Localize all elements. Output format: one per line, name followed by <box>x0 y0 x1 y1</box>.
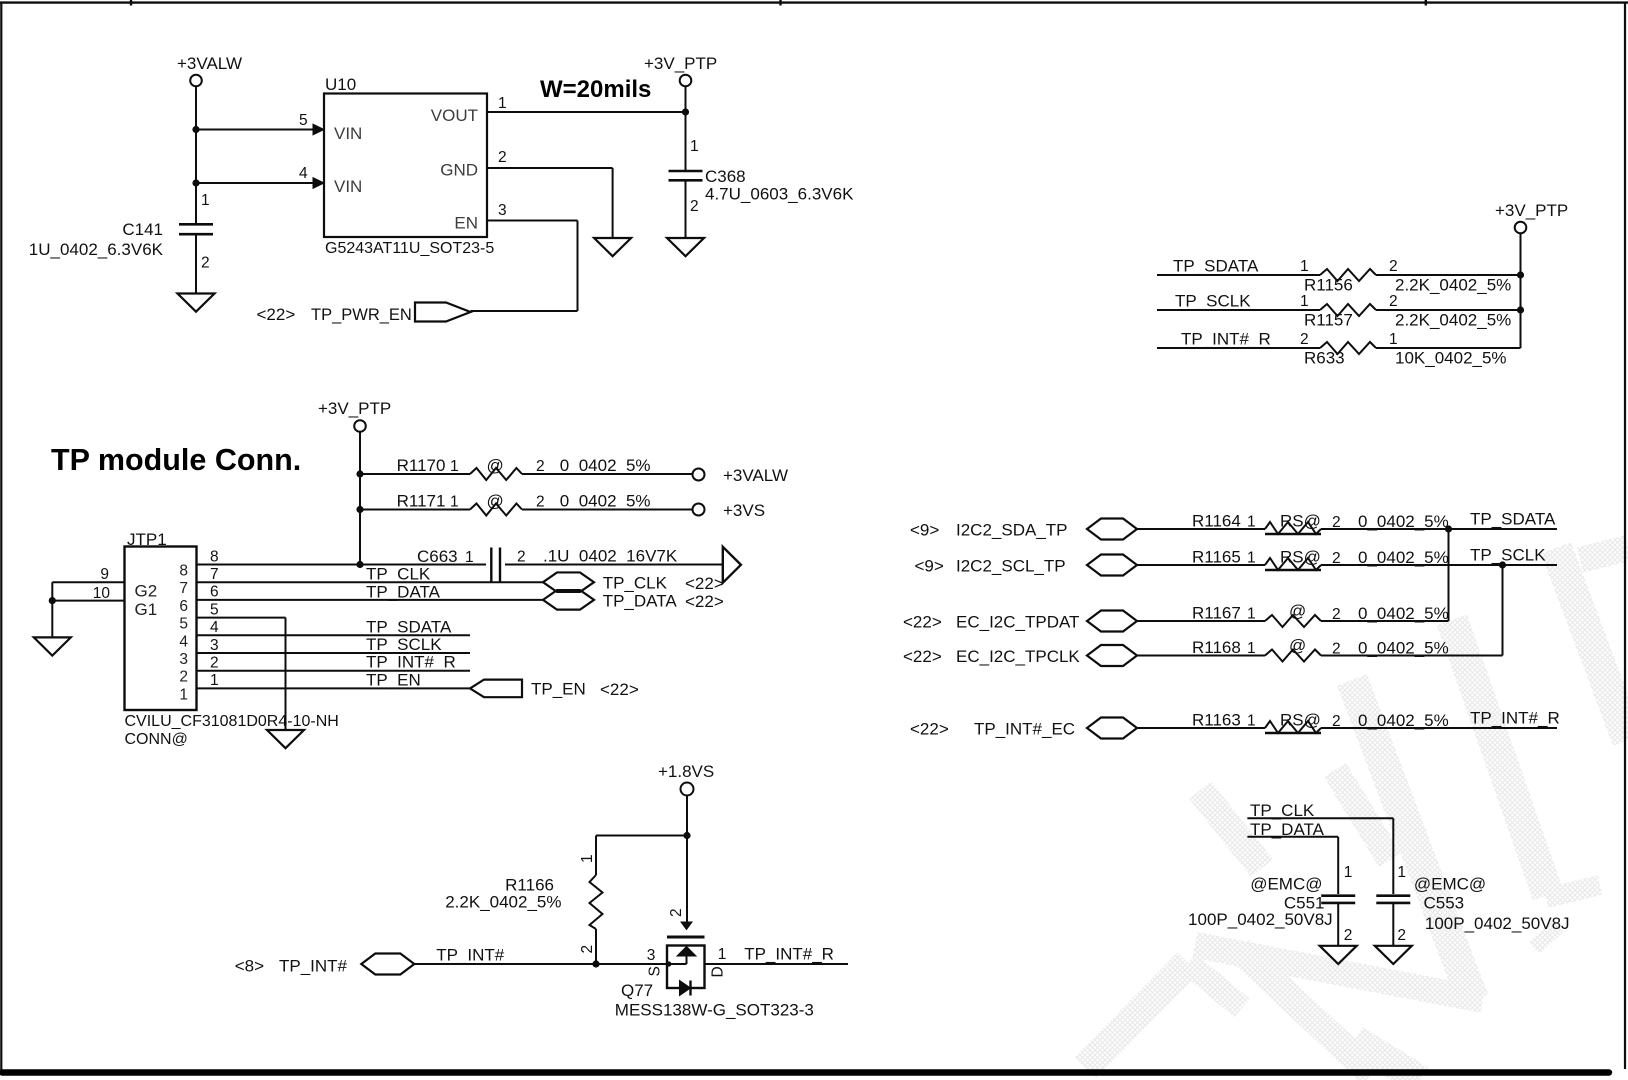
svg-text:R1157: R1157 <box>1304 311 1353 330</box>
svg-text:+3VALW: +3VALW <box>723 466 788 485</box>
svg-text:G1: G1 <box>135 600 158 619</box>
svg-text:+3V_PTP: +3V_PTP <box>644 54 717 73</box>
svg-text:TP_INT#_R: TP_INT#_R <box>744 945 834 964</box>
svg-text:.1U_0402_16V7K: .1U_0402_16V7K <box>543 547 678 566</box>
svg-text:4: 4 <box>299 165 308 182</box>
svg-text:W=20mils: W=20mils <box>540 76 651 103</box>
svg-text:@: @ <box>487 456 504 475</box>
svg-text:R1170: R1170 <box>397 456 446 475</box>
svg-text:TP_EN: TP_EN <box>531 680 586 699</box>
svg-text:EN: EN <box>454 214 478 233</box>
svg-text:<22>: <22> <box>685 592 724 611</box>
svg-text:+3VS: +3VS <box>723 501 765 520</box>
svg-text:1: 1 <box>1300 258 1309 275</box>
svg-text:2: 2 <box>1389 258 1398 275</box>
svg-text:R1156: R1156 <box>1304 276 1353 295</box>
svg-text:7: 7 <box>210 566 219 583</box>
svg-text:10K_0402_5%: 10K_0402_5% <box>1395 349 1507 368</box>
svg-text:2: 2 <box>1332 550 1341 567</box>
svg-text:@EMC@: @EMC@ <box>1414 875 1486 894</box>
svg-text:3: 3 <box>647 947 656 964</box>
svg-text:2: 2 <box>1344 927 1353 944</box>
svg-text:TP_PWR_EN: TP_PWR_EN <box>311 306 412 324</box>
svg-text:0_0402_5%: 0_0402_5% <box>1358 639 1449 658</box>
svg-text:RS@: RS@ <box>1280 512 1321 531</box>
svg-text:<22>: <22> <box>910 719 949 738</box>
svg-text:C141: C141 <box>122 220 163 239</box>
svg-text:2: 2 <box>1300 331 1309 348</box>
svg-text:Q77: Q77 <box>621 981 653 1000</box>
svg-text:R633: R633 <box>1304 349 1345 368</box>
svg-text:5: 5 <box>299 112 308 129</box>
svg-text:100P_0402_50V8J: 100P_0402_50V8J <box>1188 910 1333 929</box>
svg-text:2.2K_0402_5%: 2.2K_0402_5% <box>445 893 561 912</box>
svg-text:2: 2 <box>517 549 526 566</box>
svg-text:2: 2 <box>690 198 699 215</box>
svg-text:2: 2 <box>179 669 188 686</box>
svg-text:1: 1 <box>179 686 188 703</box>
svg-text:+3VALW: +3VALW <box>177 54 242 73</box>
svg-text:2: 2 <box>536 494 545 511</box>
svg-text:2: 2 <box>1332 713 1341 730</box>
svg-text:TP_DATA: TP_DATA <box>603 591 678 610</box>
svg-text:2: 2 <box>1332 514 1341 531</box>
svg-text:1: 1 <box>498 95 507 112</box>
svg-text:2: 2 <box>536 458 545 475</box>
svg-text:TP_CLK: TP_CLK <box>366 565 431 584</box>
svg-text:TP_INT#_EC: TP_INT#_EC <box>974 719 1075 738</box>
svg-text:1: 1 <box>1344 864 1353 881</box>
svg-text:TP_EN: TP_EN <box>366 670 421 689</box>
svg-text:I2C2_SCL_TP: I2C2_SCL_TP <box>956 556 1066 575</box>
svg-text:@: @ <box>1289 636 1306 655</box>
svg-text:TP_SDATA: TP_SDATA <box>366 617 452 636</box>
svg-text:TP_SDATA: TP_SDATA <box>1470 510 1556 529</box>
svg-text:MESS138W-G_SOT323-3: MESS138W-G_SOT323-3 <box>615 1001 814 1020</box>
svg-text:1: 1 <box>450 458 459 475</box>
svg-text:0_0402_5%: 0_0402_5% <box>1358 548 1449 567</box>
svg-text:2: 2 <box>210 655 219 672</box>
svg-text:2.2K_0402_5%: 2.2K_0402_5% <box>1395 311 1511 330</box>
svg-text:1: 1 <box>1247 514 1256 531</box>
svg-text:5: 5 <box>179 616 188 633</box>
svg-text:C663: C663 <box>417 547 458 566</box>
svg-text:D: D <box>710 966 727 977</box>
svg-text:1: 1 <box>1389 331 1398 348</box>
svg-text:6: 6 <box>179 598 188 615</box>
svg-text:TP_INT#_R: TP_INT#_R <box>366 653 456 672</box>
svg-text:<22>: <22> <box>903 647 942 666</box>
svg-text:1: 1 <box>690 138 699 155</box>
svg-text:0_0402_5%: 0_0402_5% <box>1358 711 1449 730</box>
svg-text:100P_0402_50V8J: 100P_0402_50V8J <box>1425 914 1570 933</box>
svg-text:10: 10 <box>93 585 111 602</box>
svg-text:R1163: R1163 <box>1192 711 1241 730</box>
svg-text:6: 6 <box>210 584 219 601</box>
svg-text:TP_INT#_R: TP_INT#_R <box>1470 709 1560 728</box>
svg-text:4.7U_0603_6.3V6K: 4.7U_0603_6.3V6K <box>705 185 854 204</box>
svg-text:1: 1 <box>1247 550 1256 567</box>
svg-text:@: @ <box>487 492 504 511</box>
svg-text:1: 1 <box>201 192 210 209</box>
svg-text:<8>: <8> <box>235 957 264 976</box>
svg-text:<22>: <22> <box>257 305 296 324</box>
svg-text:1: 1 <box>450 494 459 511</box>
svg-text:CVILU_CF31081D0R4-10-NH: CVILU_CF31081D0R4-10-NH <box>125 713 339 730</box>
svg-text:<22>: <22> <box>903 612 942 631</box>
svg-text:0_0402_5%: 0_0402_5% <box>1358 512 1449 531</box>
svg-text:<9>: <9> <box>915 556 944 575</box>
svg-text:1: 1 <box>465 549 474 566</box>
svg-text:TP_SDATA: TP_SDATA <box>1173 257 1259 276</box>
svg-text:R1171: R1171 <box>397 492 446 511</box>
svg-text:TP module Conn.: TP module Conn. <box>51 443 301 477</box>
svg-text:GND: GND <box>440 161 478 180</box>
svg-text:TP_CLK: TP_CLK <box>603 574 668 593</box>
svg-text:1: 1 <box>718 946 727 963</box>
svg-text:+3V_PTP: +3V_PTP <box>1495 201 1568 220</box>
svg-text:1U_0402_6.3V6K: 1U_0402_6.3V6K <box>29 240 164 259</box>
svg-text:C553: C553 <box>1424 894 1465 913</box>
svg-text:R1167: R1167 <box>1192 604 1241 623</box>
svg-text:8: 8 <box>210 548 219 565</box>
svg-text:3: 3 <box>210 637 219 654</box>
svg-text:1: 1 <box>1247 606 1256 623</box>
svg-text:VIN: VIN <box>334 124 362 143</box>
svg-text:EC_I2C_TPCLK: EC_I2C_TPCLK <box>956 647 1080 666</box>
svg-text:TP_INT#_R: TP_INT#_R <box>1181 330 1271 349</box>
svg-text:5: 5 <box>210 601 219 618</box>
svg-text:EC_I2C_TPDAT: EC_I2C_TPDAT <box>956 612 1079 631</box>
svg-text:TP_CLK: TP_CLK <box>1250 801 1315 820</box>
svg-text:+3V_PTP: +3V_PTP <box>318 399 391 418</box>
svg-text:R1165: R1165 <box>1192 548 1241 567</box>
svg-text:2: 2 <box>498 149 507 166</box>
svg-text:2: 2 <box>1332 606 1341 623</box>
svg-text:G2: G2 <box>135 582 158 601</box>
svg-text:0_0402_5%: 0_0402_5% <box>560 492 651 511</box>
svg-text:7: 7 <box>179 580 188 597</box>
svg-text:2: 2 <box>201 255 210 272</box>
svg-text:R1164: R1164 <box>1192 512 1241 531</box>
svg-text:1: 1 <box>1300 293 1309 310</box>
svg-text:1: 1 <box>1247 640 1256 657</box>
svg-text:G5243AT11U_SOT23-5: G5243AT11U_SOT23-5 <box>325 240 494 257</box>
svg-text:U10: U10 <box>325 75 356 94</box>
svg-text:TP_DATA: TP_DATA <box>366 582 441 601</box>
svg-text:4: 4 <box>179 633 188 650</box>
svg-text:8: 8 <box>179 563 188 580</box>
svg-text:3: 3 <box>498 202 507 219</box>
svg-text:R1168: R1168 <box>1192 638 1241 657</box>
svg-text:2: 2 <box>668 908 685 917</box>
svg-text:TP_SCLK: TP_SCLK <box>1470 546 1546 565</box>
svg-text:1: 1 <box>1397 864 1406 881</box>
svg-text:I2C2_SDA_TP: I2C2_SDA_TP <box>956 520 1068 539</box>
svg-text:9: 9 <box>100 566 109 583</box>
svg-text:0_0402_5%: 0_0402_5% <box>560 456 651 475</box>
svg-text:TP_INT#: TP_INT# <box>436 946 505 965</box>
svg-text:<9>: <9> <box>910 520 939 539</box>
svg-text:1: 1 <box>210 672 219 689</box>
svg-text:2: 2 <box>1389 293 1398 310</box>
svg-text:2: 2 <box>1332 641 1341 658</box>
svg-text:TP_SCLK: TP_SCLK <box>1175 292 1251 311</box>
svg-text:1: 1 <box>579 854 596 863</box>
svg-text:VIN: VIN <box>334 177 362 196</box>
svg-text:RS@: RS@ <box>1280 711 1321 730</box>
svg-text:4: 4 <box>210 619 219 636</box>
svg-text:@: @ <box>1289 602 1306 621</box>
svg-text:+1.8VS: +1.8VS <box>658 762 714 781</box>
svg-text:VOUT: VOUT <box>431 106 478 125</box>
svg-text:1: 1 <box>1247 713 1256 730</box>
svg-text:CONN@: CONN@ <box>125 731 188 748</box>
svg-text:RS@: RS@ <box>1280 548 1321 567</box>
svg-text:0_0402_5%: 0_0402_5% <box>1358 604 1449 623</box>
svg-text:<22>: <22> <box>600 680 639 699</box>
svg-text:S: S <box>647 966 664 976</box>
svg-text:2.2K_0402_5%: 2.2K_0402_5% <box>1395 276 1511 295</box>
svg-text:TP_SCLK: TP_SCLK <box>366 635 442 654</box>
svg-text:TP_INT#: TP_INT# <box>279 957 348 976</box>
svg-text:@EMC@: @EMC@ <box>1250 875 1322 894</box>
svg-text:3: 3 <box>179 651 188 668</box>
svg-text:2: 2 <box>1397 927 1406 944</box>
svg-text:<22>: <22> <box>685 574 724 593</box>
svg-text:2: 2 <box>579 945 596 954</box>
svg-text:C368: C368 <box>705 167 746 186</box>
